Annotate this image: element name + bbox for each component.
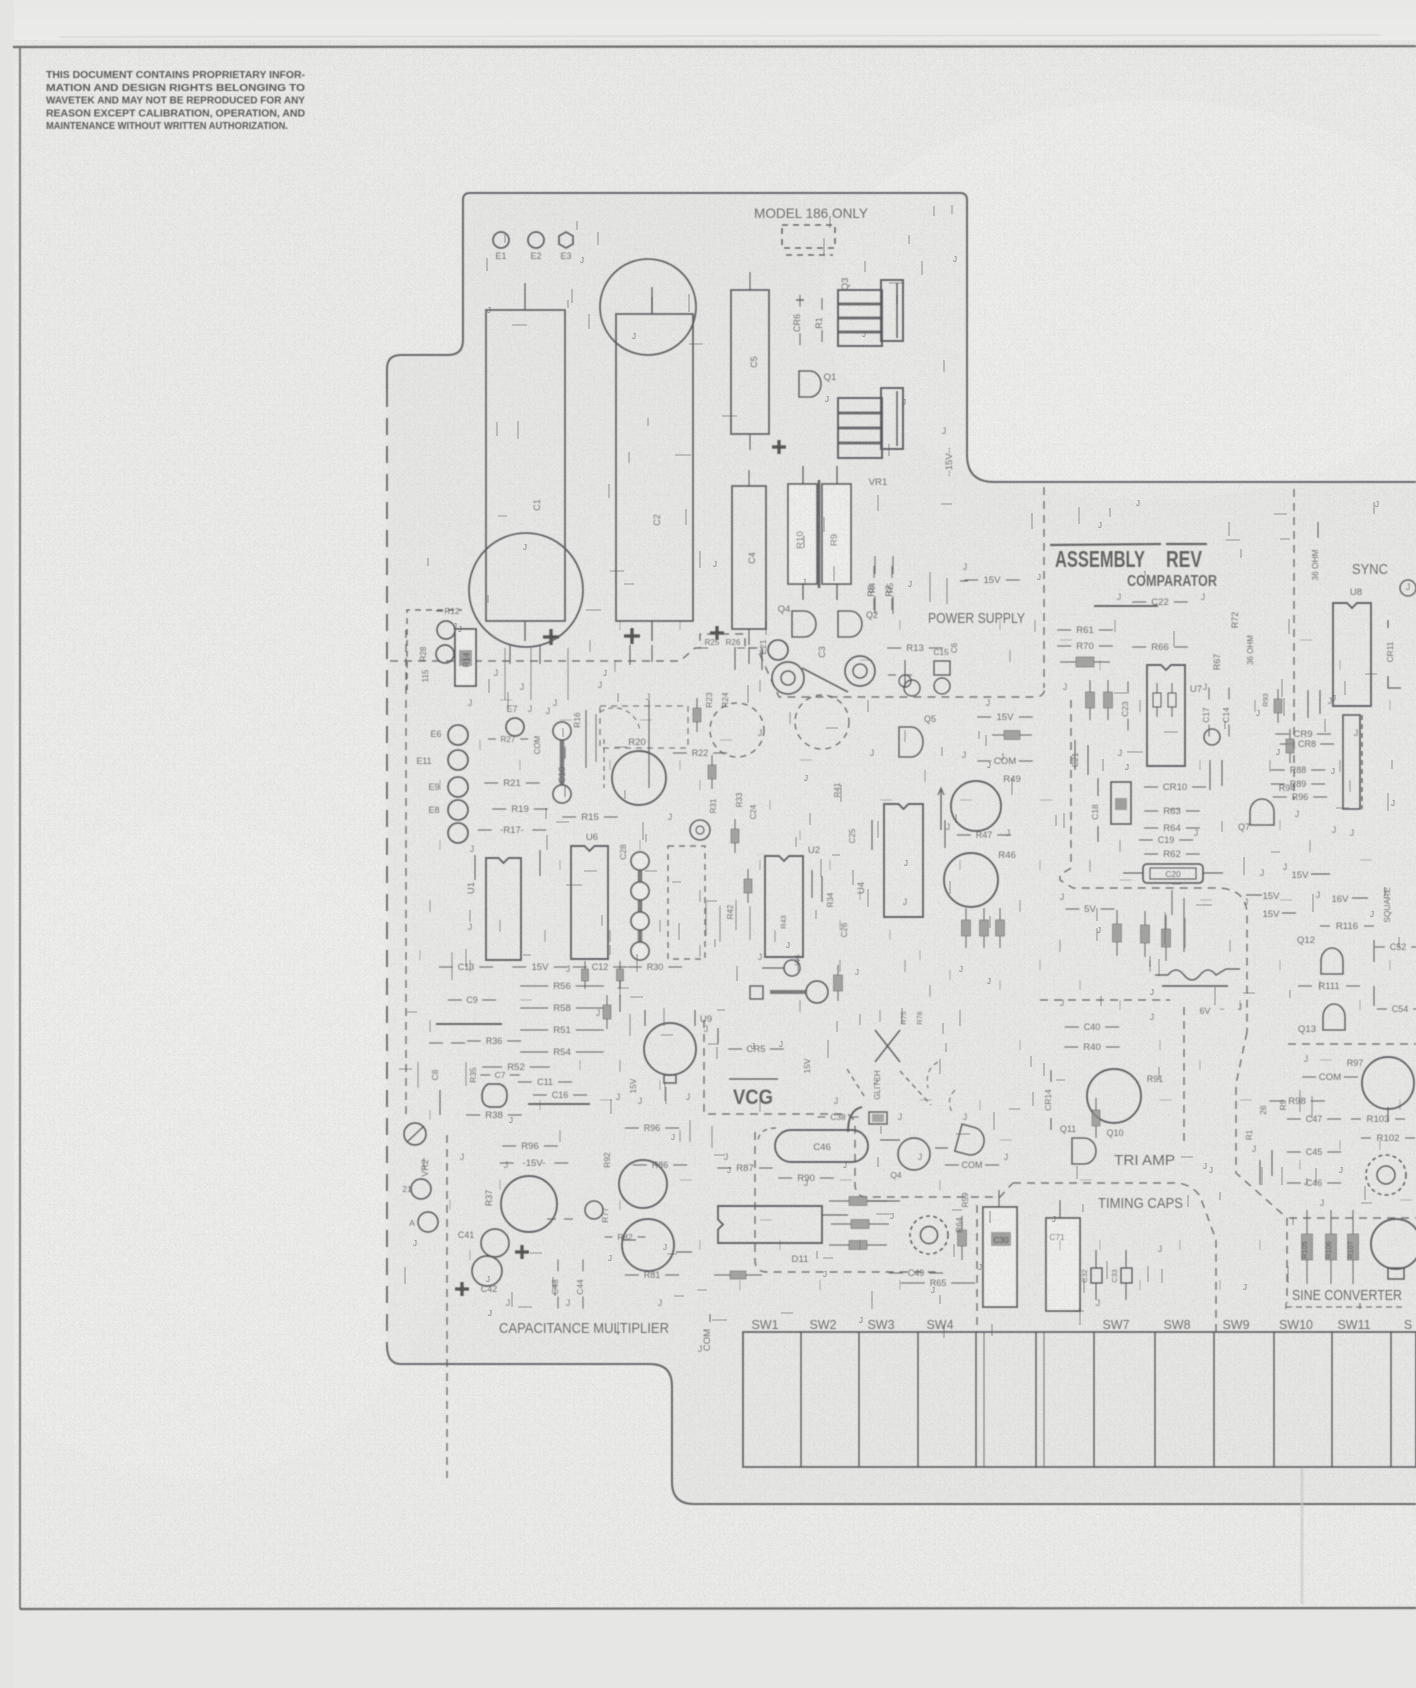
label ASSEMBLY REV (1050, 544, 1161, 545)
label R116 (1320, 925, 1330, 927)
switch divider 4 (975, 1332, 977, 1467)
small square component (750, 986, 763, 999)
terminal with slash (404, 1123, 426, 1145)
bottom area: leads near R81 (622, 1239, 636, 1241)
wire left of stack (436, 1023, 502, 1025)
dashed boundary comparator inner vertical (1060, 700, 1247, 1032)
resistor R10 body (788, 484, 817, 584)
scan shading patches (820, 100, 1416, 500)
diode CR9 label (1275, 733, 1289, 735)
label C12 under U6 (573, 966, 587, 968)
resistor R60 body (1111, 782, 1131, 824)
label C49 (889, 1272, 903, 1274)
faint scan streak below switches (1301, 1468, 1304, 1604)
resistor R97v label (625, 1127, 639, 1129)
IC U1 (486, 858, 521, 960)
capacitor C5 body (731, 290, 769, 434)
transistor Q16 can (898, 1138, 930, 1170)
power supply lead x905 (904, 660, 906, 688)
switch divider 10 (1331, 1332, 1333, 1467)
label R90 sync (1273, 796, 1287, 798)
resistor R105 vertical (1306, 1210, 1308, 1234)
resistor R14 body (455, 629, 476, 686)
transistor Q12 (1321, 948, 1343, 974)
pad with lead near W2 (784, 960, 800, 976)
resistor R111 (1298, 985, 1312, 987)
resistor Rv3 below comparator (1165, 915, 1167, 929)
switch divider 2 (858, 1332, 860, 1467)
switch divider 9 (1273, 1332, 1275, 1467)
diode CR5 label (728, 1048, 742, 1050)
capacitor C47 label (1287, 1118, 1301, 1120)
potentiometer R48 (951, 781, 1001, 831)
long leads below comparator (1171, 890, 1173, 915)
label 15V under U1 (512, 966, 526, 968)
terminal A (418, 1212, 438, 1232)
resistor R43b blob (837, 965, 839, 975)
capacitor C42 (472, 1256, 502, 1286)
label 5V below comparator (1065, 908, 1079, 910)
capacitor C10 (564, 747, 566, 759)
label COM near Q9 (945, 1164, 959, 1166)
capacitor C45 label (1287, 1151, 1301, 1153)
dashed elbow left of C46 (758, 1128, 776, 1140)
vertical lead under C1 (509, 645, 511, 664)
tiny dash texture marks (589, 640, 591, 652)
label R30 under U6 (628, 966, 642, 968)
resistor R7 (891, 566, 893, 578)
label R81 (625, 1274, 639, 1276)
terminal E2 (528, 232, 544, 248)
terminal E11 (448, 750, 468, 770)
vertical leads right of U2 (811, 870, 813, 898)
label R44 vertical (965, 908, 967, 920)
horizontal tick texture (500, 699, 512, 701)
dashed line under MODEL box (786, 254, 833, 256)
resistor R11 label (888, 674, 896, 676)
resistor R106 vertical (1330, 1210, 1332, 1234)
sync extra vres (1277, 689, 1279, 699)
switch divider 8 (1213, 1332, 1215, 1467)
resistor R98 (1269, 1100, 1283, 1102)
comparator leads right x1210 (1209, 760, 1211, 790)
jumper W2 (806, 981, 828, 1003)
resistor R107 vertical (1352, 1210, 1354, 1234)
switch divider 11 (1390, 1332, 1392, 1467)
capacitor C2 body (616, 314, 693, 621)
dashed boundary timing caps left vertical (755, 1132, 940, 1272)
label R36 (467, 1040, 481, 1042)
label VCG (729, 1078, 778, 1080)
dashed boundary left of C30 (976, 1205, 978, 1332)
capacitor C33 small body (1121, 1268, 1132, 1283)
resistor R17 dashed (478, 829, 492, 831)
resistor R63 (1144, 810, 1158, 812)
capacitor C2 plus lead (651, 621, 653, 641)
wire diagonal between pads (802, 668, 848, 692)
paper noise overlay (0, 0, 1, 1)
capacitor C32 small body (1091, 1268, 1102, 1283)
power supply pad E20 (904, 680, 920, 696)
resistor R85 bottom left (714, 1274, 730, 1276)
potentiometer R37 (501, 1176, 557, 1232)
dashed boundary timing caps box (1040, 1000, 1184, 1144)
vertical resistor x735 y830 (734, 819, 736, 829)
capacitor C41 (481, 1229, 509, 1257)
plus C41 (515, 1250, 529, 1253)
potentiometer R81 (622, 1219, 674, 1271)
diode CR10 label (1144, 786, 1158, 788)
capacitor C43 (557, 1259, 559, 1271)
resistor stack R52 (482, 1066, 502, 1068)
faint line above top border (60, 35, 1380, 37)
cross mark X (875, 1030, 900, 1062)
cap mult top extra labels (488, 738, 496, 740)
page frame bottom border (20, 1608, 1416, 1609)
terminal E6 (448, 725, 468, 745)
capacitor C38 label (817, 1116, 825, 1118)
dashed boundary sine converter bottom bracket (1286, 1303, 1404, 1312)
switch divider 7 (1154, 1332, 1156, 1467)
jumper E-chain pads (638, 861, 643, 951)
capacitor C4 body (732, 486, 766, 629)
capacitor C14 vertical (1228, 687, 1230, 699)
potentiometer R20 (612, 751, 666, 805)
resistor R59 vertical beside C30 (961, 1216, 963, 1230)
vcg leads batch (629, 1014, 631, 1036)
capacitor C44 (582, 1259, 584, 1271)
switch divider 6 (1093, 1332, 1095, 1467)
capacitor C22 label (1132, 601, 1146, 603)
capacitor C40 label (1065, 1026, 1079, 1028)
dashed boundary capacitance multiplier (406, 630, 447, 1478)
transistor Q4 (792, 611, 816, 637)
cap mult leads batch (451, 952, 453, 980)
dashed circle Q alt position right (795, 695, 849, 749)
dashed box R12 R14 (407, 610, 462, 690)
lead stubs x930 power supply (929, 572, 931, 602)
wavy wire squiggle (1168, 969, 1226, 980)
resistor R88 label (1271, 769, 1285, 771)
transistor Q5 (899, 727, 923, 757)
capacitor C23 vertical (1127, 681, 1129, 693)
transistor Q7comp (1250, 799, 1274, 825)
U9 area leads (644, 1010, 646, 1026)
resistor R1 (821, 298, 823, 310)
pad E13 (1400, 580, 1416, 596)
resistor R103 (1351, 1118, 1361, 1120)
trimmer U10 scallop (1366, 1155, 1406, 1195)
cap mult label C7 (480, 1074, 490, 1076)
pad E12 (1204, 729, 1220, 745)
large circle at C2 top (600, 259, 696, 355)
dashed boundary comparator left vertical (1043, 487, 1045, 688)
resistor stack R54 (520, 1051, 548, 1053)
dashed boundary sine converter octagon (1236, 1032, 1416, 1303)
power supply extra R labels (874, 556, 876, 574)
resistor R102 (1361, 1137, 1371, 1139)
trim pad R12 lower (436, 645, 454, 663)
resistor Rv2 below comparator (1144, 911, 1146, 925)
comparator mid leads (1164, 912, 1166, 945)
capacitor C20 pill (1143, 864, 1203, 883)
glitch dashed arcs (927, 1062, 938, 1088)
jumper W1 pads (560, 731, 565, 794)
vcg extra: dashed circle segment (600, 708, 640, 732)
resistor R73 vertical (1107, 680, 1109, 692)
switch divider 5 (1035, 1332, 1037, 1467)
terminal E9 (448, 777, 468, 797)
vcg cluster vertical leads (705, 902, 707, 936)
resistor R19 (492, 808, 506, 810)
capacitor C13 label (439, 966, 453, 968)
terminal E7 (506, 718, 524, 736)
PCB board outline (470, 193, 1416, 482)
wire verticals right of W1 (585, 710, 587, 768)
label R22 (673, 752, 687, 754)
label R86 (633, 1164, 647, 1166)
IC U2 (765, 856, 803, 957)
capacitor C17 vertical (1208, 687, 1210, 699)
trimmer C48 scallop (910, 1216, 948, 1254)
transistor U11 can (1371, 1219, 1416, 1269)
resistor R90 mid (778, 1177, 792, 1179)
capacitor C46b label (1287, 1182, 1301, 1184)
resistor R33 blob (606, 995, 608, 1005)
dashed diagonal near glitch (847, 1069, 866, 1099)
label R47 (957, 834, 971, 836)
label COM power supply (977, 760, 991, 762)
resistor R87 mid (717, 1167, 731, 1169)
capacitor C9 label (448, 999, 462, 1001)
IC D11 (718, 1206, 822, 1243)
transistor Q7 pad rings (772, 662, 804, 694)
transistor Q8 pad rings (845, 656, 875, 686)
trim pad R12 upper (437, 621, 455, 639)
cap mult extra leads y860 (474, 855, 476, 880)
resistor R40a vertical pair near 690 (696, 698, 698, 708)
vertical resistor x748 y880 (747, 869, 749, 879)
resistor R38 (466, 1114, 480, 1116)
transistor Q13 (1323, 1004, 1345, 1030)
resistor R39 vertical (1095, 1098, 1097, 1110)
capacitor C54 label (1377, 1008, 1387, 1010)
dashed circle Q alt position left (710, 703, 764, 757)
pad ring small (690, 820, 710, 840)
capacitor C1 body (486, 310, 565, 621)
page frame left border (19, 47, 21, 1609)
small parts y1000 x620 (619, 995, 621, 1012)
sync area leads (1307, 690, 1309, 718)
dashed stub x604 (603, 739, 605, 788)
transistor Q15 small (585, 1201, 603, 1219)
resistor R96 label (502, 1145, 516, 1147)
bottom: label R85 (547, 1218, 556, 1220)
resistor R21 (484, 782, 498, 784)
vertical leads left of U4 (871, 820, 873, 850)
leads near R97 (1387, 1107, 1389, 1122)
sine converter inner leads 2 (1299, 1090, 1301, 1112)
resistor R64 (1144, 827, 1158, 829)
dashed boundary under filter caps (390, 634, 1045, 697)
label CR8 left (1280, 743, 1294, 745)
potentiometer Q10 can (1087, 1069, 1141, 1123)
regulator VR1 heatsink (838, 398, 882, 458)
resistor R61 (1057, 629, 1071, 631)
resistor Rv1 below comparator (1116, 910, 1118, 924)
diode CR7 label (429, 1042, 443, 1044)
junction dot power supply (899, 675, 911, 687)
sine conv inner leads (1259, 1160, 1261, 1185)
dashed boundary sync section vertical (1293, 489, 1295, 800)
resistor R69 blob (1060, 661, 1076, 663)
capacitor C11 label (518, 1081, 532, 1083)
lead stubs below C1 C2 (504, 648, 506, 700)
diode CR6 (799, 295, 801, 307)
resistor row right of D11 - R90 (829, 1200, 849, 1202)
resistor R13 label (887, 647, 901, 649)
board interior wash (387, 193, 1416, 1504)
dashed boundary VCG region (704, 1020, 1013, 1197)
label 15V power supply (977, 716, 991, 718)
resistor row right of D11 - R91 (831, 1223, 851, 1225)
terminal E8b (448, 823, 468, 843)
capacitor C71 (1046, 1218, 1080, 1311)
solid corner right of C46 (848, 1107, 862, 1132)
switch row outline (743, 1332, 1416, 1467)
transistor Q3 heatsink (838, 290, 882, 346)
leads between C46 and Q9 (880, 1139, 900, 1141)
tiny dash texture batch2 (479, 740, 481, 750)
vertical lead cluster under C4 (734, 647, 736, 670)
label -15V- upper (964, 579, 978, 581)
pad E21 (768, 640, 788, 660)
IC U7 (1147, 665, 1185, 766)
dashed box R22 (600, 706, 688, 748)
square area leads (1373, 940, 1375, 962)
resistor R8 (873, 566, 875, 578)
resistor R15 (562, 816, 576, 818)
resistor R71 vertical (1089, 680, 1091, 692)
leads above C30 (998, 1190, 1000, 1207)
potentiometer R46 (944, 853, 998, 907)
crystal C15 (934, 661, 950, 675)
terminal E3 (559, 232, 573, 248)
page frame top border (13, 45, 1416, 48)
resistor R9 body (822, 484, 851, 584)
resistor R66 (1132, 646, 1146, 648)
vertical lead cluster under C2 (629, 645, 631, 665)
wire under squiggle (1162, 985, 1228, 987)
capacitor C52 label (1375, 946, 1385, 948)
capacitor C30 (983, 1207, 1017, 1307)
resistor R89 label (1271, 783, 1285, 785)
wire vertical x649 (648, 700, 650, 788)
resistor stack R56 (520, 985, 548, 987)
lead rows between D11 and C30 (822, 1214, 848, 1216)
capacitor C38 body on boundary (869, 1112, 887, 1124)
IC U6 (571, 846, 608, 959)
IC U5 (757, 854, 767, 859)
potentiometer R97 (1362, 1057, 1414, 1109)
label R65 (901, 1282, 925, 1284)
resistor stack R58 (520, 1007, 548, 1009)
lead stroke texture batch3 (675, 454, 691, 456)
dashed boundary timing caps right descend (1013, 1183, 1216, 1332)
comparator leads y 740-780 (1074, 740, 1076, 770)
large circle at C1 bottom (469, 533, 583, 647)
terminal E8 (448, 800, 468, 820)
IC U4 (884, 804, 923, 917)
small parts below U6 (584, 961, 586, 969)
resistor R70 (1057, 645, 1071, 647)
transistor U9 can (644, 1023, 696, 1075)
switch divider 3 (917, 1332, 919, 1467)
capacitor C19 label (1139, 839, 1153, 841)
label R45 vertical (983, 908, 985, 920)
switch divider 1 (800, 1332, 802, 1467)
plus C42 (455, 1287, 469, 1290)
comparator small parts row y700 (1156, 683, 1158, 693)
switch divider double lines (983, 1332, 985, 1467)
dashed diagonal near Q16 (900, 1071, 931, 1105)
transistor Q1 (799, 371, 821, 397)
cap mult leads y1100 (439, 1090, 441, 1115)
transistor Q6 double ring (860, 677, 862, 679)
resistor stack R51 (520, 1029, 548, 1031)
resistor R50 blob (992, 734, 1004, 736)
resistor R40 label (1064, 1046, 1078, 1048)
capacitor C1 plus lead (524, 621, 526, 641)
transistor Q11 (1072, 1138, 1096, 1164)
label W3 vertical (999, 908, 1001, 920)
potentiometer R80 (619, 1160, 667, 1208)
terminal E1 (493, 232, 509, 248)
IC U8 (1333, 603, 1371, 706)
label COM square (1302, 1076, 1316, 1078)
resistor R62 (1144, 853, 1158, 855)
component below U8 (1343, 715, 1360, 809)
dashed IC U3 position (668, 846, 705, 959)
capacitor C16 label (533, 1094, 547, 1096)
label -15V- cap mult (500, 1162, 514, 1164)
dashed rectangle below MODEL label (782, 225, 835, 248)
transistor Q2 (838, 611, 862, 637)
terminal E10 (411, 1179, 431, 1199)
arrow lead left of U4 (940, 790, 942, 830)
transistor Q9 (955, 1124, 987, 1158)
capacitor C46 pill (775, 1130, 868, 1162)
wire under C11 (528, 1103, 590, 1105)
resistor row right of D11 - R93 (829, 1244, 849, 1246)
transistor Q14 rounded square (482, 1084, 507, 1107)
